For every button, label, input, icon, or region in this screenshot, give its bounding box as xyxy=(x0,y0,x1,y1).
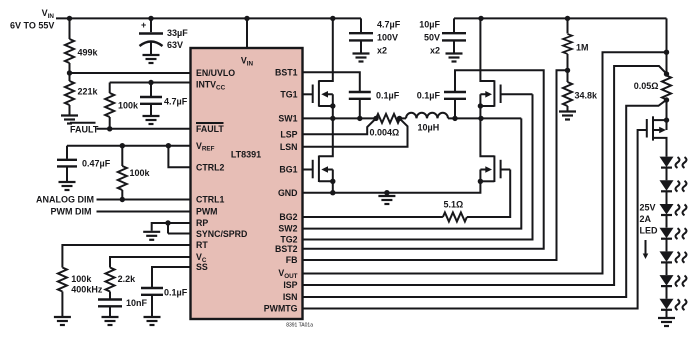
wire FAULT xyxy=(97,128,191,130)
resistor R8 5.1ohm gate xyxy=(443,200,467,222)
transistor M3 top boost NMOS xyxy=(480,18,532,118)
svg-text:8391 TA01a: 8391 TA01a xyxy=(286,323,313,329)
ground under RP xyxy=(143,232,160,240)
node VIN label xyxy=(10,8,54,31)
svg-text:BG2: BG2 xyxy=(279,212,297,222)
wire VOUT rail top-right xyxy=(454,17,667,19)
svg-text:SYNC/SPRD: SYNC/SPRD xyxy=(196,229,247,239)
wire TG1 xyxy=(302,93,313,95)
resistor R11 0.05ohm LED sense xyxy=(634,76,671,100)
ground under 10uF 50V xyxy=(446,54,463,62)
svg-text:499k: 499k xyxy=(78,48,99,58)
svg-text:50V: 50V xyxy=(424,33,440,43)
svg-text:0.05Ω: 0.05Ω xyxy=(634,81,659,91)
LED D4 xyxy=(660,228,687,239)
wire VIN rail top-left xyxy=(56,17,361,19)
svg-text:+: + xyxy=(141,20,146,30)
ground under 10nF xyxy=(102,317,119,325)
wire RP to ground xyxy=(152,223,191,231)
LED D5 xyxy=(660,251,687,262)
svg-text:ISP: ISP xyxy=(283,280,297,290)
wire INTVCC xyxy=(110,82,191,84)
wire CTRL2 tie to VREF xyxy=(168,146,190,168)
wire ISP xyxy=(302,66,667,285)
svg-text:SW2: SW2 xyxy=(278,224,297,234)
svg-text:2A: 2A xyxy=(640,214,652,224)
wire xyxy=(666,191,668,204)
svg-text:10µF: 10µF xyxy=(419,20,440,30)
svg-text:100k: 100k xyxy=(71,274,92,284)
svg-text:4.7µF: 4.7µF xyxy=(164,97,188,107)
svg-text:10nF: 10nF xyxy=(126,298,148,308)
svg-text:LT8391: LT8391 xyxy=(231,150,261,160)
transistor M4 bottom boost NMOS xyxy=(480,118,510,182)
LED D6 xyxy=(660,275,687,286)
ground under 4.7uF 100V xyxy=(353,54,370,62)
svg-text:SS: SS xyxy=(196,262,208,272)
U1 pin labels left xyxy=(196,56,254,273)
ground under 4.7uF xyxy=(143,116,160,124)
svg-text:1M: 1M xyxy=(576,43,589,53)
op-amp U1 LT8391 IC body xyxy=(191,48,314,329)
svg-text:BST1: BST1 xyxy=(275,67,298,77)
svg-text:EN/UVLO: EN/UVLO xyxy=(196,68,235,78)
capacitor C2 4.7uF INTVCC xyxy=(140,83,188,116)
wire SS xyxy=(152,267,191,287)
capacitor C4 10nF VC xyxy=(98,298,148,316)
svg-text:10µH: 10µH xyxy=(418,122,440,132)
ground under 34.8k xyxy=(559,112,576,120)
transistor M2 bottom buck NMOS xyxy=(313,118,333,192)
wire SW1 node xyxy=(302,117,521,119)
svg-text:x2: x2 xyxy=(430,46,440,56)
svg-text:TG1: TG1 xyxy=(280,89,297,99)
wire ISN xyxy=(302,100,667,297)
wire GND line xyxy=(302,181,480,192)
svg-text:RT: RT xyxy=(196,240,208,250)
svg-text:SW1: SW1 xyxy=(278,114,297,124)
resistor R9 1M divider top xyxy=(563,18,589,70)
svg-text:0.1µF: 0.1µF xyxy=(417,91,441,101)
wire LSP xyxy=(302,118,376,134)
svg-text:RP: RP xyxy=(196,218,208,228)
svg-text:LSP: LSP xyxy=(280,129,297,139)
capacitor C9 0.1uF BST2 xyxy=(417,91,466,119)
U1 pin labels right xyxy=(264,67,298,313)
wire VC xyxy=(110,257,191,268)
capacitor C1 33uF 63V polarized xyxy=(139,18,188,54)
wire CTRL1 / ANALOG DIM xyxy=(97,199,191,201)
resistor R6 2.2k VC xyxy=(106,268,137,299)
node FAULT label xyxy=(70,123,99,135)
ground under 221k xyxy=(61,116,78,124)
svg-text:0.47µF: 0.47µF xyxy=(82,158,111,168)
resistor R2 221k xyxy=(65,73,99,115)
resistor R10 34.8k divider bottom xyxy=(563,70,598,110)
wire RT xyxy=(62,245,190,268)
svg-text:400kHz: 400kHz xyxy=(71,285,103,295)
svg-text:CTRL2: CTRL2 xyxy=(196,163,224,173)
svg-text:33µF: 33µF xyxy=(167,28,188,38)
LED D3 xyxy=(660,204,687,215)
wire BG1 xyxy=(302,169,313,171)
wire xyxy=(666,215,668,228)
ground under SS cap xyxy=(144,317,161,325)
svg-text:PWMTG: PWMTG xyxy=(264,304,298,314)
ground under LED string xyxy=(658,318,675,326)
capacitor C3 0.47uF VREF xyxy=(57,146,111,181)
svg-text:2.2k: 2.2k xyxy=(118,274,137,284)
capacitor C7 10uF 50V x2 output xyxy=(419,18,466,55)
wire SYNC/SPRD tie to RP xyxy=(168,223,191,234)
svg-text:FAULT: FAULT xyxy=(70,124,99,134)
wire sense to M5 xyxy=(666,100,668,121)
wire PWM / PWM DIM xyxy=(97,211,191,213)
LED D7 xyxy=(660,299,687,310)
wire BG2 xyxy=(302,170,510,218)
wire LSN xyxy=(302,118,408,146)
svg-text:63V: 63V xyxy=(167,40,183,50)
transistor M1 top buck NMOS xyxy=(313,18,333,118)
wire PWMTG xyxy=(302,130,647,309)
capacitor C8 0.1uF BST1 xyxy=(349,91,400,119)
svg-text:221k: 221k xyxy=(78,87,99,97)
resistor R7 0.004ohm sense xyxy=(370,114,401,137)
svg-text:5.1Ω: 5.1Ω xyxy=(444,200,464,210)
wire FB xyxy=(302,70,568,260)
svg-text:ISN: ISN xyxy=(283,292,298,302)
inductor L1 10uH xyxy=(406,113,448,133)
resistor R1 499k xyxy=(65,18,99,73)
capacitor C6 4.7uF 100V x2 input xyxy=(349,18,401,55)
svg-text:PWM DIM: PWM DIM xyxy=(51,207,92,217)
svg-text:x2: x2 xyxy=(377,46,387,56)
svg-text:PWM: PWM xyxy=(196,207,218,217)
wire xyxy=(666,168,668,181)
wire BST2 xyxy=(302,70,544,249)
svg-text:0.1µF: 0.1µF xyxy=(376,91,400,101)
ground center xyxy=(378,193,395,204)
wire EN/UVLO xyxy=(70,72,191,74)
wire xyxy=(666,239,668,252)
svg-text:BST2: BST2 xyxy=(275,244,298,254)
svg-text:FB: FB xyxy=(286,255,298,265)
wire VOUT xyxy=(302,52,667,273)
LED string labels xyxy=(640,203,659,260)
svg-text:0.004Ω: 0.004Ω xyxy=(370,127,400,137)
ground under 33uF xyxy=(143,55,160,63)
svg-text:LSN: LSN xyxy=(280,142,298,152)
svg-text:4.7µF: 4.7µF xyxy=(377,20,401,30)
svg-text:0.1µF: 0.1µF xyxy=(164,288,188,298)
wire VIN pin drop xyxy=(246,18,248,48)
svg-text:6V TO 55V: 6V TO 55V xyxy=(10,21,54,31)
wire xyxy=(666,286,668,299)
resistor R5 100k 400kHz RT xyxy=(58,268,103,317)
svg-text:FAULT: FAULT xyxy=(196,124,224,134)
wire TG2 xyxy=(302,94,533,239)
wire xyxy=(666,310,668,317)
svg-text:LED: LED xyxy=(640,226,659,236)
wire xyxy=(666,262,668,275)
ground under 0.47uF xyxy=(59,182,76,190)
svg-text:100k: 100k xyxy=(130,168,151,178)
wire VREF xyxy=(67,145,191,147)
ground under RT resistor xyxy=(54,317,71,325)
LED D2 xyxy=(660,180,687,191)
svg-text:100V: 100V xyxy=(377,33,398,43)
LED D1 xyxy=(660,157,687,168)
resistor R3 100k FAULT pull-up xyxy=(105,83,139,129)
svg-text:100k: 100k xyxy=(118,101,139,111)
wire SW2 xyxy=(302,118,521,228)
resistor R4 100k VREF to CTRL1 xyxy=(118,146,151,200)
svg-text:ANALOG DIM: ANALOG DIM xyxy=(36,195,94,205)
wire output rail right xyxy=(666,18,668,75)
svg-text:GND: GND xyxy=(278,188,298,198)
svg-text:CTRL1: CTRL1 xyxy=(196,195,224,205)
capacitor C5 0.1uF SS xyxy=(141,288,188,317)
wire BST1 xyxy=(302,72,360,91)
transistor M5 PWM dimming PMOS xyxy=(647,116,667,156)
svg-text:34.8k: 34.8k xyxy=(575,91,599,101)
svg-text:BG1: BG1 xyxy=(279,165,297,175)
svg-text:25V: 25V xyxy=(640,203,656,213)
